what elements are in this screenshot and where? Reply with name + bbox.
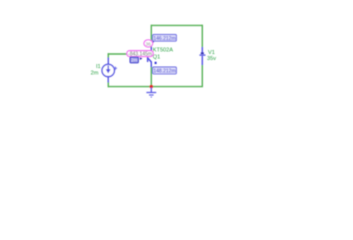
- I1 plus mark: [114, 67, 117, 70]
- wire right vertical upper: V1 top lead: [201, 25, 203, 48]
- emitter arrowhead: [149, 58, 152, 62]
- base current box 2m: [130, 57, 138, 63]
- svg-text:KT502A: KT502A: [153, 47, 173, 53]
- svg-text:35v: 35v: [207, 56, 216, 62]
- wire I1 bottom vertical: [107, 82, 109, 87]
- wire bottom rail: [108, 86, 203, 88]
- battery V1: [199, 47, 205, 65]
- current indicator ellipse (collector): [144, 40, 153, 47]
- transistor Q1 symbol: [148, 47, 152, 67]
- svg-text:2m: 2m: [91, 71, 99, 77]
- long thin plate: [199, 54, 205, 56]
- base voltage capsule -843.145m: [127, 51, 153, 58]
- svg-text:I1: I1: [96, 64, 101, 70]
- svg-text:146.212m: 146.212m: [153, 36, 175, 42]
- wire right vertical lower: V1 bottom lead to bottom rail: [201, 65, 203, 87]
- junction dot: [150, 85, 153, 88]
- collector lead diagonal: [148, 51, 152, 55]
- blue dot right of emitter: [155, 62, 157, 64]
- collector lead vertical: [150, 47, 152, 52]
- svg-text:36: 36: [146, 42, 152, 47]
- emitter lead diagonal: [148, 58, 152, 62]
- bottom value box 148.212m: [153, 67, 177, 75]
- emitter lead vertical: [150, 62, 152, 68]
- wire base horizontal from I1 to Q1: [108, 53, 148, 55]
- base current arrowhead: [140, 57, 143, 60]
- current source I1 symbol: [102, 58, 114, 83]
- base bar: [147, 51, 149, 62]
- svg-text:2m: 2m: [131, 58, 137, 63]
- wire emitter vertical to bottom rail: [150, 66, 152, 87]
- top value box 146.212m: [153, 35, 177, 43]
- I1 arrow (down): [106, 69, 111, 73]
- short thick plate: [201, 52, 204, 54]
- svg-text:148.212m: 148.212m: [153, 69, 175, 75]
- ground: [146, 88, 156, 98]
- wire I1 top vertical: [107, 53, 109, 58]
- svg-text:Q1: Q1: [153, 55, 160, 61]
- arrowhead below top value box: [152, 40, 155, 43]
- wire collector vertical: [150, 25, 152, 48]
- wire top: collector node to V1 top: [151, 24, 202, 26]
